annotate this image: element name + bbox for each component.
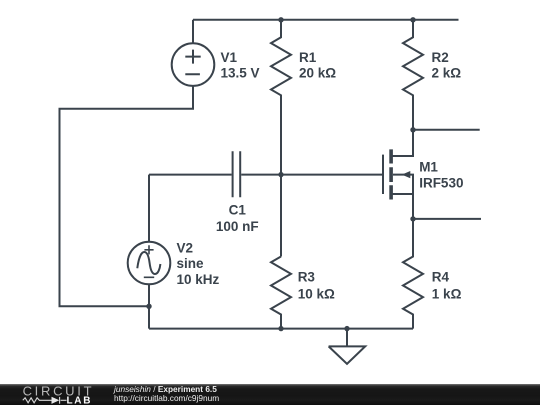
label R4 [432,269,462,301]
resistor R1 [271,20,291,257]
resistor R3 [271,257,291,329]
wire C1 to gate [241,174,382,176]
wire V2 branch vertical [148,175,150,329]
mosfet M1 body+source wires [391,175,413,219]
mosfet M1 gate bar [382,155,384,194]
label R3 [298,269,335,301]
wire drain node right [413,129,480,131]
wire V1 top stub [192,20,194,44]
svg-text:R4: R4 [432,269,450,284]
svg-text:1 kΩ: 1 kΩ [432,286,462,301]
svg-text:C1: C1 [229,203,247,218]
wire source node right [413,218,481,220]
svg-text:R2: R2 [432,50,449,65]
voltage source V1 [172,43,215,86]
label V2 [177,241,220,287]
svg-text:10 kΩ: 10 kΩ [298,286,335,301]
mosfet M1 channel dashes [389,149,393,199]
svg-text:20 kΩ: 20 kΩ [299,66,336,81]
wire top bus [193,19,459,21]
capacitor C1 [149,174,232,176]
svg-text:LAB: LAB [67,395,93,405]
footer text [114,385,219,403]
svg-text:10 kHz: 10 kHz [177,272,220,287]
label V1 [221,50,260,81]
resistor R4 [403,219,423,329]
wire bottom bus [149,328,413,330]
voltage source V2 [128,242,171,285]
svg-text:V2: V2 [177,241,194,256]
wire V1 bottom to lower-left [60,86,194,306]
svg-text:V1: V1 [221,50,238,65]
svg-text:R3: R3 [298,269,316,284]
svg-text:IRF530: IRF530 [419,176,463,191]
CircuitLab logo [0,383,100,405]
svg-text:2 kΩ: 2 kΩ [432,66,462,81]
label M1 [419,159,463,190]
label C1 [216,203,259,234]
wire drain down [391,130,413,156]
label R2 [432,50,462,81]
footer bar [0,384,540,405]
label R1 [299,50,336,81]
svg-text:sine: sine [177,256,205,271]
ground [329,329,366,364]
svg-text:M1: M1 [419,159,438,174]
svg-text:13.5 V: 13.5 V [221,66,260,81]
resistor R2 [403,20,423,130]
svg-text:R1: R1 [299,50,317,65]
svg-text:100 nF: 100 nF [216,219,259,234]
mosfet M1 body arrow [402,171,411,178]
